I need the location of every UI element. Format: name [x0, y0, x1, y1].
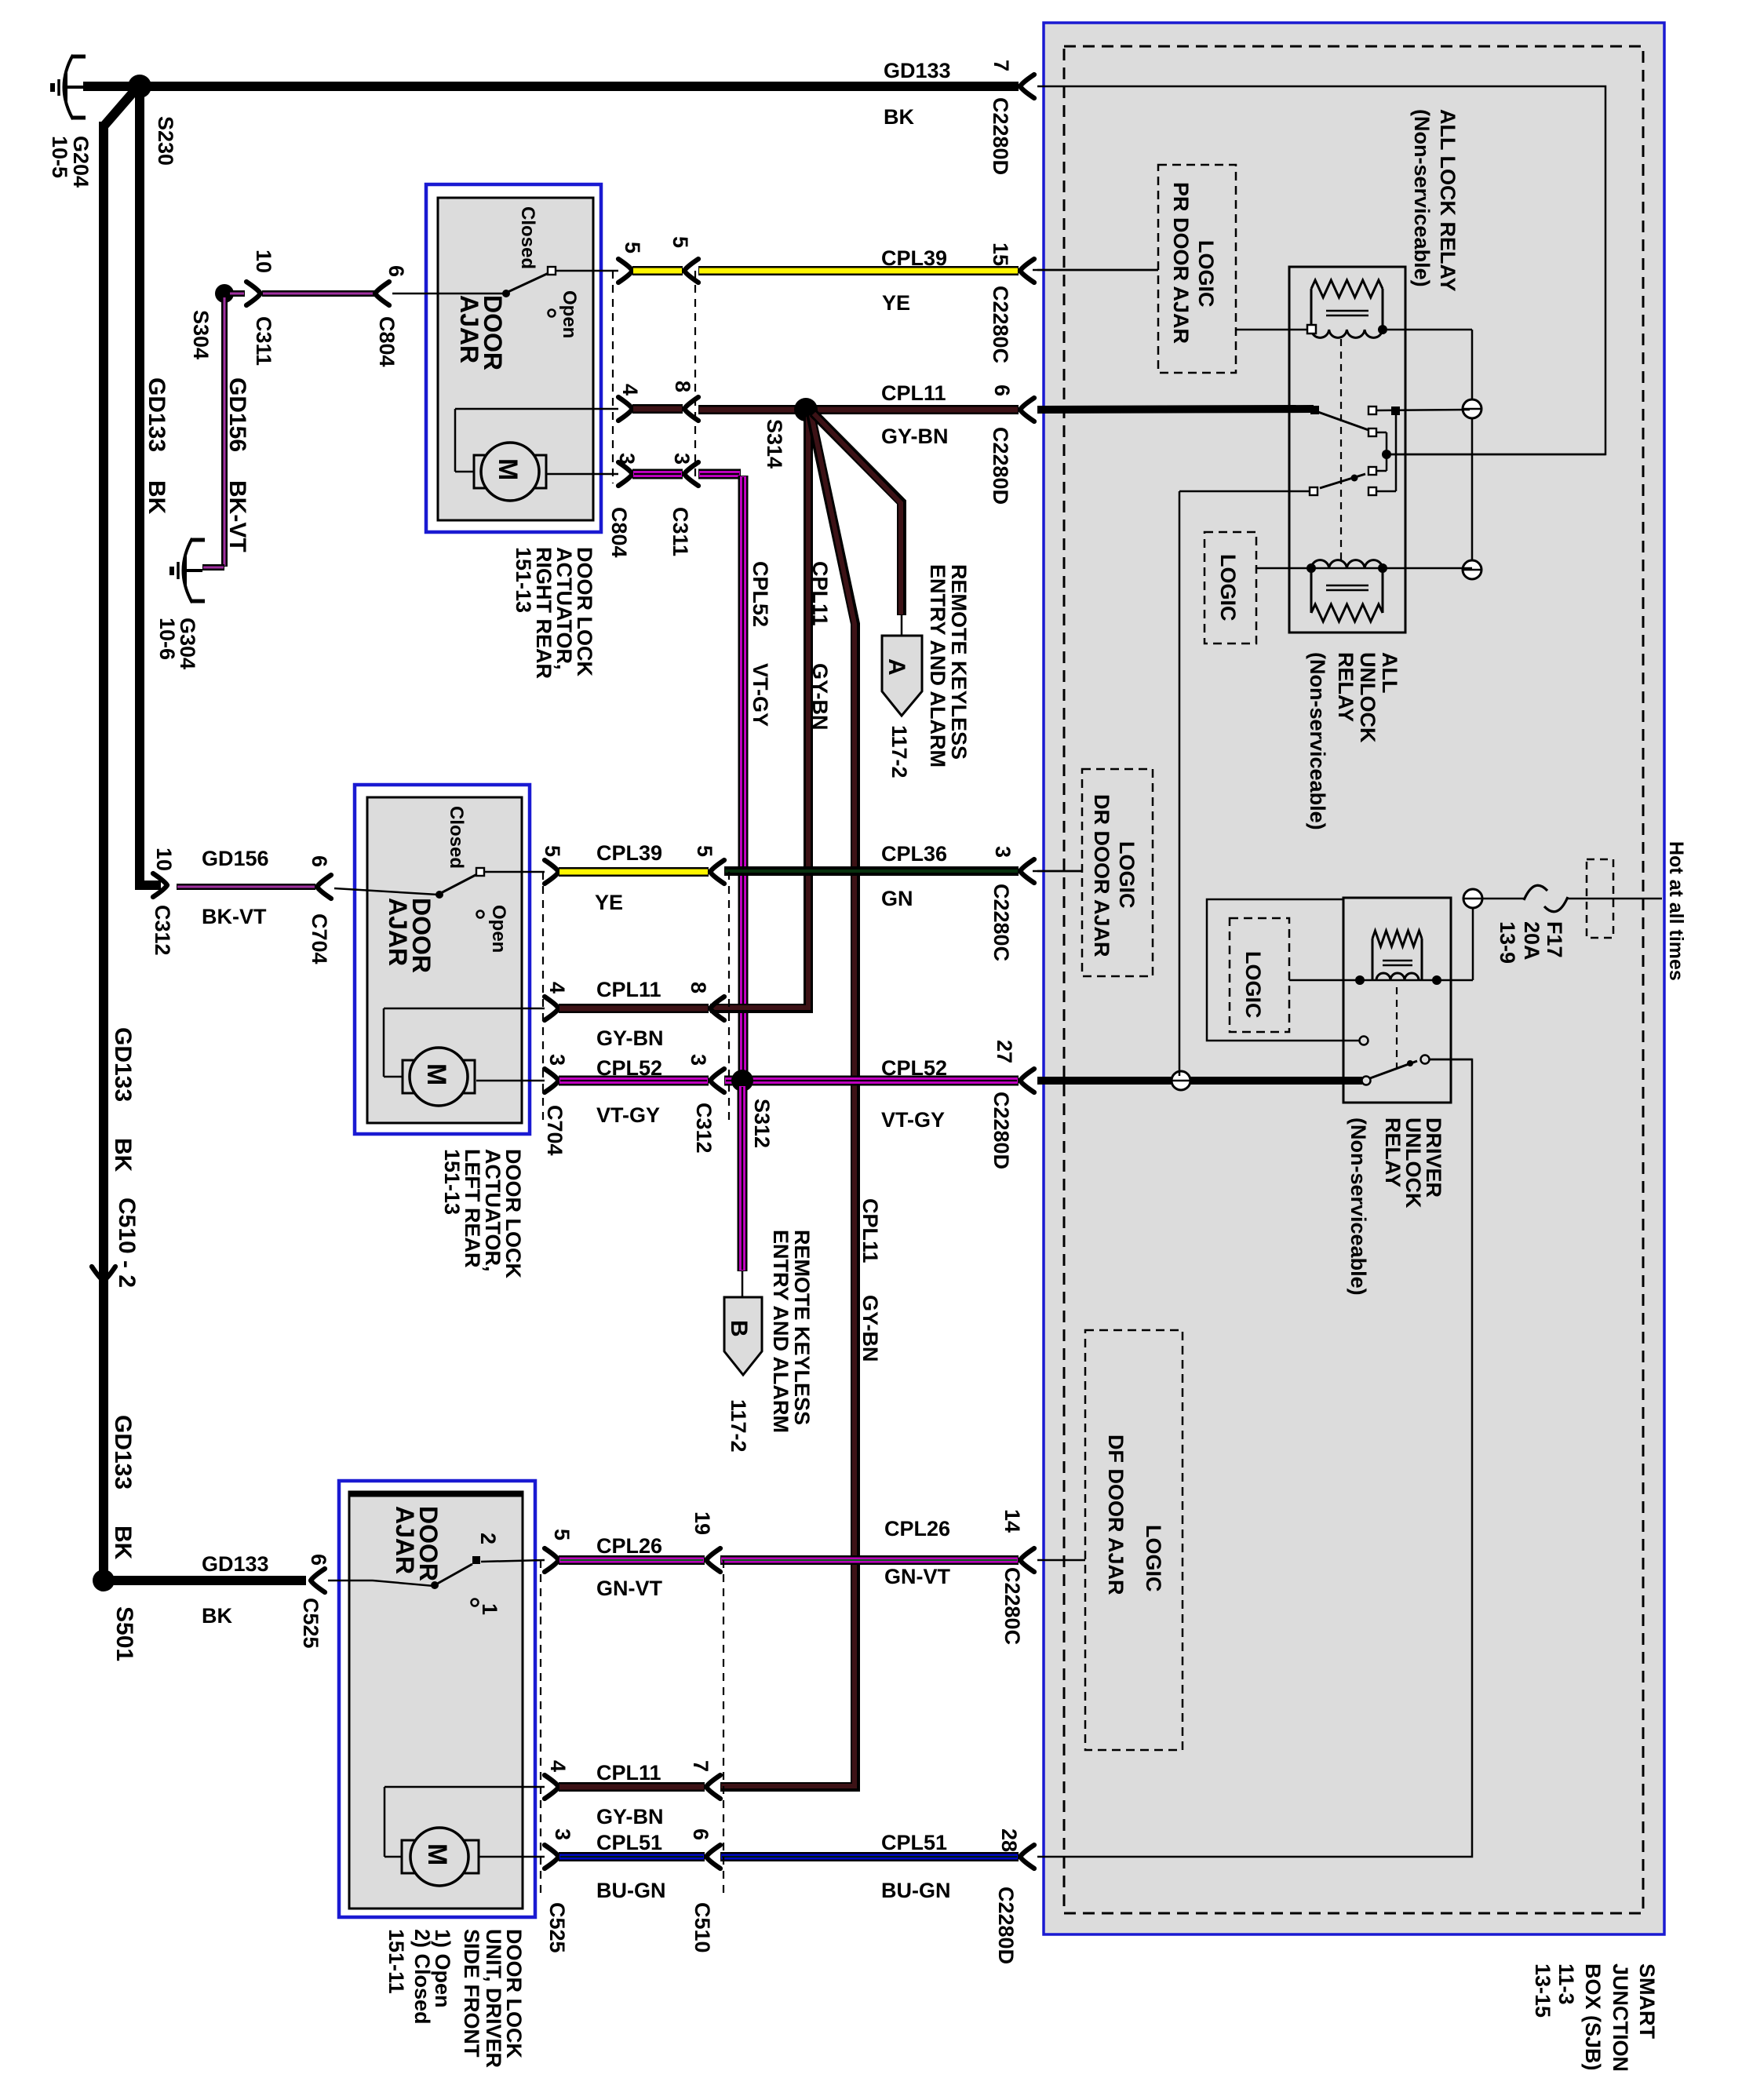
svg-text:CPL11: CPL11 [596, 978, 661, 1001]
svg-text:VT-GY: VT-GY [881, 1108, 945, 1132]
svg-text:GY-BN: GY-BN [858, 1295, 882, 1362]
svg-text:S501: S501 [111, 1606, 137, 1661]
svg-text:(Non-serviceable): (Non-serviceable) [1347, 1117, 1370, 1296]
svg-text:Closed: Closed [446, 806, 467, 869]
svg-text:C704: C704 [308, 913, 331, 964]
svg-text:C510 - 2: C510 - 2 [114, 1198, 140, 1288]
svg-text:YE: YE [882, 291, 910, 315]
svg-text:10-6: 10-6 [155, 618, 179, 660]
svg-text:GD133: GD133 [144, 377, 169, 452]
svg-text:C312: C312 [151, 905, 174, 956]
svg-text:JUNCTION: JUNCTION [1609, 1963, 1632, 2072]
svg-text:UNIT, DRIVER: UNIT, DRIVER [482, 1929, 505, 2068]
svg-text:S314: S314 [763, 419, 786, 468]
svg-text:GD156: GD156 [202, 847, 269, 870]
svg-text:GN: GN [881, 887, 913, 910]
svg-text:C2280D: C2280D [989, 97, 1012, 175]
svg-text:BK-VT: BK-VT [202, 905, 267, 928]
svg-text:19: 19 [691, 1511, 714, 1535]
svg-text:C311: C311 [669, 507, 692, 556]
svg-text:M: M [493, 458, 523, 480]
svg-text:13-9: 13-9 [1496, 921, 1519, 964]
svg-text:C510: C510 [691, 1902, 714, 1953]
svg-text:Open: Open [559, 290, 580, 338]
svg-text:ALL LOCK RELAY: ALL LOCK RELAY [1436, 109, 1460, 292]
svg-text:BU-GN: BU-GN [881, 1879, 951, 1902]
svg-text:UNLOCK: UNLOCK [1356, 652, 1379, 743]
svg-text:DR DOOR AJAR: DR DOOR AJAR [1090, 794, 1113, 957]
svg-text:(Non-serviceable): (Non-serviceable) [1410, 109, 1434, 287]
svg-text:SMART: SMART [1635, 1963, 1659, 2039]
svg-text:GD133: GD133 [110, 1415, 136, 1489]
svg-text:10: 10 [252, 250, 275, 273]
svg-text:ENTRY AND ALARM: ENTRY AND ALARM [769, 1230, 793, 1433]
svg-text:13-15: 13-15 [1531, 1963, 1554, 2018]
svg-text:15: 15 [989, 242, 1012, 266]
svg-text:1: 1 [478, 1603, 501, 1615]
svg-text:7: 7 [689, 1760, 712, 1772]
svg-text:6: 6 [308, 855, 331, 867]
svg-text:20A: 20A [1520, 921, 1543, 961]
svg-text:BK: BK [110, 1138, 136, 1172]
svg-text:Open: Open [488, 905, 509, 953]
svg-text:CPL52: CPL52 [749, 561, 772, 627]
svg-text:3: 3 [991, 846, 1015, 858]
svg-text:AJAR: AJAR [455, 295, 483, 363]
svg-text:5: 5 [669, 236, 692, 248]
svg-text:RELAY: RELAY [1381, 1117, 1405, 1187]
svg-text:7: 7 [989, 60, 1013, 71]
svg-text:10: 10 [152, 848, 176, 871]
svg-text:BK: BK [110, 1526, 136, 1560]
svg-text:117-2: 117-2 [727, 1399, 750, 1453]
svg-text:F17: F17 [1543, 921, 1566, 958]
svg-text:11-3: 11-3 [1554, 1963, 1578, 2005]
svg-text:CPL51: CPL51 [881, 1831, 947, 1854]
svg-text:5: 5 [541, 845, 564, 857]
svg-text:C2280C: C2280C [989, 286, 1012, 363]
svg-text:Closed: Closed [517, 206, 538, 269]
svg-text:YE: YE [595, 891, 623, 914]
svg-text:BK-VT: BK-VT [224, 480, 250, 552]
svg-text:VT-GY: VT-GY [749, 663, 772, 727]
svg-text:REMOTE KEYLESS: REMOTE KEYLESS [790, 1230, 814, 1425]
svg-text:27: 27 [993, 1040, 1016, 1063]
svg-text:GD156: GD156 [224, 377, 250, 452]
svg-text:PR DOOR AJAR: PR DOOR AJAR [1169, 182, 1193, 344]
svg-text:C804: C804 [375, 316, 399, 367]
svg-text:GD133: GD133 [110, 1027, 136, 1102]
svg-text:5: 5 [621, 242, 644, 253]
svg-text:C525: C525 [545, 1902, 569, 1953]
svg-text:LOGIC: LOGIC [1241, 951, 1265, 1019]
svg-text:ALL: ALL [1378, 652, 1401, 693]
svg-text:14: 14 [1000, 1509, 1024, 1533]
svg-text:117-2: 117-2 [887, 725, 911, 778]
svg-text:AJAR: AJAR [391, 1506, 419, 1574]
svg-text:CPL39: CPL39 [881, 246, 947, 270]
svg-text:CPL52: CPL52 [881, 1056, 947, 1080]
svg-text:VT-GY: VT-GY [596, 1103, 660, 1127]
svg-text:REMOTE KEYLESS: REMOTE KEYLESS [947, 564, 971, 760]
svg-text:3: 3 [670, 453, 694, 465]
svg-text:GD133: GD133 [202, 1552, 269, 1576]
svg-text:28: 28 [997, 1828, 1021, 1852]
svg-text:LOGIC: LOGIC [1194, 240, 1218, 308]
svg-text:5: 5 [550, 1529, 574, 1540]
svg-text:SIDE FRONT: SIDE FRONT [460, 1929, 483, 2058]
svg-text:LOGIC: LOGIC [1142, 1525, 1165, 1592]
svg-text:CPL52: CPL52 [596, 1056, 662, 1080]
svg-text:GD133: GD133 [884, 59, 951, 82]
svg-text:4: 4 [546, 1760, 570, 1772]
svg-text:10-5: 10-5 [48, 136, 71, 178]
svg-text:LOGIC: LOGIC [1115, 841, 1139, 909]
svg-text:CPL11: CPL11 [596, 1761, 661, 1785]
svg-text:CPL39: CPL39 [596, 841, 662, 865]
svg-text:S304: S304 [189, 310, 213, 359]
svg-text:DF DOOR AJAR: DF DOOR AJAR [1104, 1435, 1128, 1595]
svg-text:LOGIC: LOGIC [1216, 554, 1240, 622]
svg-text:GY-BN: GY-BN [596, 1026, 664, 1050]
svg-text:BK: BK [884, 105, 914, 129]
svg-text:GN-VT: GN-VT [884, 1565, 951, 1588]
svg-text:2: 2 [476, 1533, 500, 1544]
svg-text:3: 3 [687, 1054, 710, 1066]
svg-text:RELAY: RELAY [1334, 652, 1358, 722]
svg-text:BU-GN: BU-GN [596, 1879, 666, 1902]
svg-text:C2280C: C2280C [1000, 1567, 1024, 1645]
svg-text:4: 4 [545, 982, 569, 993]
svg-text:BK: BK [144, 480, 169, 515]
svg-text:151-13: 151-13 [512, 547, 535, 613]
svg-text:BK: BK [202, 1604, 232, 1628]
svg-text:151-11: 151-11 [384, 1929, 408, 1994]
svg-text:GY-BN: GY-BN [881, 425, 949, 448]
svg-text:BOX (SJB): BOX (SJB) [1581, 1963, 1605, 2071]
svg-text:6: 6 [307, 1554, 330, 1566]
svg-text:GY-BN: GY-BN [808, 663, 832, 731]
svg-text:3: 3 [545, 1054, 569, 1066]
svg-text:8: 8 [671, 381, 694, 392]
svg-text:151-13: 151-13 [440, 1149, 464, 1215]
svg-text:C804: C804 [607, 507, 631, 558]
svg-text:C525: C525 [299, 1598, 323, 1649]
svg-text:6: 6 [990, 385, 1014, 396]
svg-text:CPL26: CPL26 [884, 1517, 950, 1540]
svg-text:(Non-serviceable): (Non-serviceable) [1306, 652, 1329, 830]
svg-text:ENTRY AND ALARM: ENTRY AND ALARM [926, 564, 949, 767]
svg-text:C2280D: C2280D [989, 1092, 1013, 1169]
svg-text:B: B [726, 1320, 752, 1337]
svg-text:6: 6 [689, 1828, 712, 1840]
svg-text:C2280D: C2280D [994, 1887, 1018, 1964]
svg-text:CPL11: CPL11 [858, 1198, 882, 1263]
svg-text:C704: C704 [543, 1105, 567, 1156]
svg-text:GY-BN: GY-BN [596, 1805, 664, 1828]
svg-text:CPL51: CPL51 [596, 1831, 662, 1854]
svg-text:CPL11: CPL11 [808, 561, 832, 626]
svg-text:GN-VT: GN-VT [596, 1577, 663, 1600]
svg-text:2) Closed: 2) Closed [410, 1929, 434, 2025]
svg-text:C312: C312 [692, 1103, 716, 1154]
svg-text:C311: C311 [252, 316, 275, 366]
svg-text:3: 3 [615, 453, 639, 465]
svg-text:3: 3 [551, 1828, 574, 1840]
svg-text:CPL11: CPL11 [881, 381, 946, 405]
svg-text:Hot at all times: Hot at all times [1665, 841, 1687, 981]
svg-text:AJAR: AJAR [384, 898, 412, 966]
svg-text:5: 5 [693, 845, 716, 857]
svg-text:8: 8 [687, 982, 710, 993]
svg-text:CPL36: CPL36 [881, 842, 947, 866]
svg-text:6: 6 [384, 265, 408, 277]
svg-text:4: 4 [618, 384, 642, 396]
svg-text:C2280C: C2280C [989, 884, 1013, 961]
svg-text:M: M [422, 1843, 452, 1865]
svg-text:A: A [884, 658, 909, 676]
svg-text:M: M [421, 1063, 451, 1085]
svg-text:S230: S230 [154, 116, 177, 166]
svg-text:S312: S312 [750, 1099, 774, 1148]
svg-text:CPL26: CPL26 [596, 1534, 662, 1558]
svg-text:G204: G204 [69, 136, 93, 188]
svg-text:C2280D: C2280D [989, 427, 1012, 505]
